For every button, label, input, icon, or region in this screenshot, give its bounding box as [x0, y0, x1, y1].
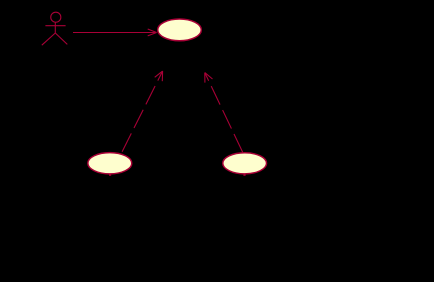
- node anchor nub UC3 bottom: [243, 174, 245, 176]
- usecase UC2 (bottom left): [88, 153, 132, 174]
- node anchor nub UC2 bottom: [109, 174, 111, 176]
- wire: dashed dependency UC2 to UC1: [121, 71, 162, 153]
- usecase UC1 (top): [158, 19, 202, 41]
- wire: association actor to UC1: [73, 32, 156, 34]
- arrowhead dependency right: [205, 73, 213, 83]
- actor User: [42, 12, 68, 45]
- usecase UC3 (bottom right): [223, 153, 267, 174]
- wire: dashed dependency UC3 to UC1: [205, 73, 243, 153]
- arrowhead dependency left: [155, 71, 163, 81]
- arrowhead association: [148, 29, 157, 36]
